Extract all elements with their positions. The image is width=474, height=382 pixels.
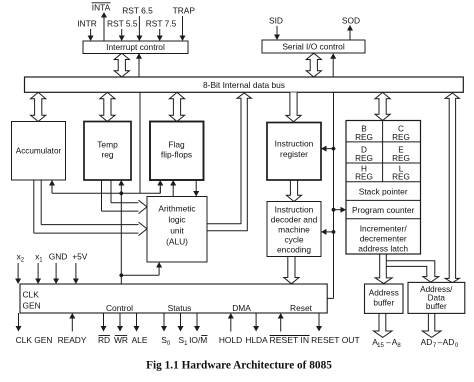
svg-text:encoding: encoding [277, 245, 311, 255]
svg-text:Instruction: Instruction [275, 205, 314, 215]
svg-text:HOLD: HOLD [219, 335, 242, 345]
svg-text:8-Bit Internal data bus: 8-Bit Internal data bus [203, 80, 285, 90]
svg-text:RST 7.5: RST 7.5 [146, 19, 177, 29]
svg-text:Address: Address [369, 289, 399, 298]
svg-text:cycle: cycle [284, 235, 303, 245]
svg-text:GND: GND [49, 252, 68, 262]
svg-text:register: register [280, 149, 308, 159]
svg-text:decoder and: decoder and [271, 215, 318, 225]
svg-text:RST 6.5: RST 6.5 [122, 6, 153, 16]
svg-text:RESET IN: RESET IN [270, 335, 309, 345]
svg-text:machine: machine [278, 225, 310, 235]
svg-text:INTR: INTR [77, 19, 97, 29]
svg-text:REG: REG [355, 154, 373, 163]
svg-text:ALE: ALE [132, 335, 148, 345]
svg-text:reg: reg [101, 150, 113, 160]
svg-text:SOD: SOD [342, 16, 360, 26]
svg-text:(ALU): (ALU) [166, 237, 188, 247]
svg-text:HLDA: HLDA [245, 335, 268, 345]
svg-text:REG: REG [392, 154, 410, 163]
svg-text:AD: AD [443, 337, 455, 347]
svg-text:15: 15 [377, 343, 384, 349]
svg-text:DMA: DMA [232, 303, 251, 313]
svg-text:WR: WR [114, 335, 128, 345]
svg-text:SID: SID [269, 16, 283, 26]
svg-text:INTA: INTA [92, 3, 111, 13]
svg-text:logic: logic [168, 215, 185, 225]
svg-text:buffer: buffer [373, 299, 394, 308]
svg-text:Accumulator: Accumulator [16, 147, 62, 156]
svg-text:Control: Control [106, 303, 133, 313]
svg-text:Fig 1.1 Hardware Architecture: Fig 1.1 Hardware Architecture of 8085 [146, 360, 332, 372]
svg-text:Incrementer/: Incrementer/ [360, 224, 408, 234]
svg-text:CLK: CLK [23, 290, 40, 300]
svg-text:address latch: address latch [358, 243, 408, 253]
svg-text:RST 5.5: RST 5.5 [107, 19, 138, 29]
svg-text:REG: REG [392, 133, 410, 142]
svg-text:Interrupt control: Interrupt control [106, 42, 165, 52]
svg-text:Arithmetic: Arithmetic [158, 204, 195, 214]
svg-text:REG: REG [355, 173, 373, 182]
svg-text:READY: READY [58, 335, 87, 345]
svg-text:Serial I/O control: Serial I/O control [282, 42, 345, 52]
svg-text:RD: RD [98, 335, 110, 345]
svg-text:REG: REG [355, 133, 373, 142]
svg-text:RESET OUT: RESET OUT [311, 335, 360, 345]
svg-text:Program counter: Program counter [352, 205, 415, 215]
svg-text:decrementer: decrementer [360, 234, 407, 244]
svg-text:Stack pointer: Stack pointer [359, 187, 408, 197]
svg-text:Reset: Reset [290, 303, 313, 313]
svg-text:CLK GEN: CLK GEN [16, 335, 53, 345]
svg-text:IO/M: IO/M [189, 335, 207, 345]
svg-text:Temp: Temp [97, 140, 118, 150]
svg-text:TRAP: TRAP [173, 6, 196, 16]
svg-text:Instruction: Instruction [275, 139, 314, 149]
svg-text:–: – [386, 337, 391, 347]
svg-text:flip-flops: flip-flops [161, 150, 192, 160]
svg-text:Status: Status [168, 303, 192, 313]
svg-text:Flag: Flag [168, 140, 185, 150]
svg-text:+5V: +5V [72, 252, 88, 262]
svg-text:REG: REG [392, 173, 410, 182]
svg-text:unit: unit [170, 226, 184, 236]
svg-text:AD: AD [421, 337, 433, 347]
svg-text:GEN: GEN [23, 301, 41, 311]
svg-text:buffer: buffer [426, 302, 447, 311]
